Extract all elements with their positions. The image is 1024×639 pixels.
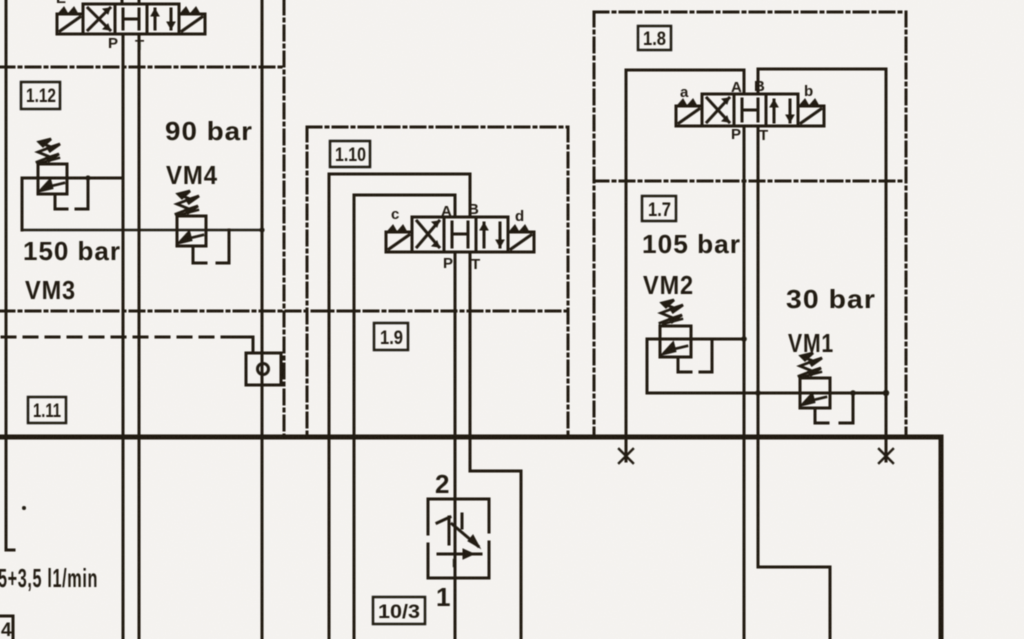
- node: junction at (262,230): [259, 227, 264, 232]
- relief valve VM2: spring: [660, 300, 683, 324]
- drain stub of VM4 (left L): [193, 246, 206, 263]
- frame 1.10: dash-dot enclosure: [307, 126, 568, 129]
- flow control valve 10/3: enclosure: [428, 499, 489, 578]
- wire: thick collector bus: [0, 435, 941, 440]
- node: junction T line: [755, 390, 761, 396]
- wire: T line of V1.8 down with step to bottom: [757, 126, 760, 437]
- valve V1.10 centre position: blocked ports: [452, 222, 468, 247]
- wire: VM3 pilot loop: [21, 178, 24, 230]
- valve V1.13 (top-left 4/3 solenoid valve, cut at top): body: [83, 4, 179, 34]
- label box 1.7: [642, 196, 676, 221]
- wire: step from T line of V1.10 below bus: [470, 437, 521, 639]
- drain stub of VM3 (right L): [76, 178, 88, 209]
- drain stub of VM1 (right L): [840, 393, 853, 423]
- relief valve VM3: body: [38, 164, 67, 194]
- drain stub of VM2 (left L): [678, 357, 691, 372]
- frame: dash-dot divider y=311: [0, 310, 568, 313]
- relief valve VM1: body: [800, 378, 830, 408]
- wire: P line of V1.8 down to bottom: [743, 126, 746, 639]
- relief valve VM1: arrow: [802, 394, 826, 405]
- drain stub of VM2 (right L): [700, 339, 712, 372]
- label box 1.9: [374, 323, 408, 350]
- gauge G1: test point box: [246, 353, 281, 385]
- valve V1.8 left position: crossed arrows X: [707, 98, 729, 122]
- wire: P line of V1.10 down through flow valve: [454, 252, 457, 639]
- wire: VM1 line y=393 from VM2 loop to x=886: [647, 392, 886, 395]
- valve V1.13 centre position: blocked ports H: [123, 9, 139, 29]
- wire: main line y=230 from VM3 loop to x=262: [22, 229, 262, 232]
- frame: dash-dot divider 1.8/1.7 y=181: [594, 180, 906, 183]
- frame: dash-dot vertical x=284: [283, 0, 286, 437]
- node: junction at x=886: [883, 390, 889, 396]
- valve V1.10 right position: parallel arrows: [484, 223, 500, 247]
- solenoid b of V1.13: [179, 14, 205, 34]
- wire: B stub above V1.13: [138, 0, 141, 4]
- wire: thick bus right vertical: [939, 437, 944, 639]
- label box 1.8: [638, 26, 671, 50]
- node: small dot left area: [22, 506, 26, 510]
- relief valve VM1: spring: [799, 353, 822, 377]
- wire: T line from V1.13 down to bottom: [138, 34, 141, 639]
- wire: vertical pipe x=262 full height: [261, 0, 264, 639]
- wire: far-left vertical pipe: [6, 0, 14, 550]
- label box 1.10: [330, 141, 370, 167]
- drain stub of VM3 (left L): [55, 194, 67, 209]
- relief valve VM4: spring: [176, 191, 199, 215]
- wire: VM2 pilot loop down: [646, 339, 649, 393]
- solenoid a of V1.8: [676, 106, 702, 126]
- drain stub of VM4 (right L): [217, 230, 229, 263]
- wire: dashed pilot line y=337 to gauge: [2, 336, 230, 339]
- node: junction VM2 on P line: [741, 336, 747, 342]
- solenoid a of V1.13: [57, 14, 83, 34]
- frame 1.8: dash-dot enclosure: [594, 11, 906, 14]
- valve V1.10 left position: crossed arrows X: [417, 221, 439, 247]
- relief valve VM2: arrow: [663, 343, 687, 354]
- relief valve VM3: arrow: [40, 180, 64, 191]
- solenoid b of V1.8: [798, 106, 824, 126]
- node: junction VM1 drain: [850, 390, 856, 396]
- wire: A-port route of V1.10 (inner frame): [354, 195, 455, 639]
- plugged port X at x=626: [625, 439, 628, 461]
- wire: B-port route of V1.8 (right box): [758, 69, 886, 437]
- label box 10/3: [373, 597, 425, 624]
- wire: B-port route of V1.10 (outer frame): [329, 174, 470, 639]
- wire: VM3 inlet line y=178: [22, 177, 123, 180]
- valve V1.13 right position: parallel arrows: [155, 9, 171, 29]
- solenoid d of V1.10: [508, 232, 534, 252]
- label box 4 (cut at corner): [0, 616, 13, 639]
- label box 1.12: [21, 82, 60, 109]
- flow control valve 10/3: variable throttle: [437, 514, 462, 544]
- node: junction VM3 drain on line: [85, 175, 90, 180]
- frame: dash-dot section divider y=67: [0, 66, 284, 69]
- relief valve VM4: body: [177, 216, 206, 246]
- relief valve VM2: body: [660, 326, 691, 357]
- valve V1.8 centre position: blocked ports H: [742, 99, 758, 121]
- relief valve VM3: spring: [37, 139, 60, 163]
- drain stub of VM1 (left L): [815, 408, 828, 423]
- wire: P line from V1.13 down to bottom: [122, 34, 125, 639]
- valve V1.13 left position: crossed arrows X: [88, 8, 110, 30]
- gauge G1: circle: [258, 364, 269, 375]
- wire: T line of V1.10 down to bus: [469, 252, 472, 437]
- wire: VM2 inlet line y=339: [647, 338, 744, 341]
- wire: A stub above V1.13: [121, 0, 124, 4]
- valve V1.10 (4/3 solenoid valve): body: [412, 217, 508, 252]
- flow control valve 10/3: flow arrow: [438, 553, 481, 556]
- relief valve VM4: arrow: [179, 232, 203, 243]
- label box 1.11: [28, 397, 66, 423]
- solenoid c of V1.10: [386, 232, 412, 252]
- wire: A-port route of V1.8 (left box): [626, 70, 744, 437]
- valve V1.8 (4/3 solenoid valve): body: [702, 94, 798, 126]
- plugged port X at x=886: [885, 439, 888, 461]
- valve V1.8 right position: parallel arrows: [774, 100, 790, 122]
